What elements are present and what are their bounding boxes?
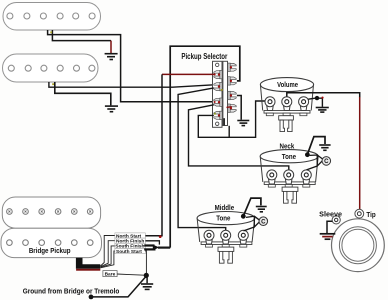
capacitor C-NECK wedge (307, 155, 323, 170)
label box Bare (103, 271, 117, 277)
svg-text:C: C (324, 159, 329, 165)
solder dot N.Start (159, 235, 162, 238)
wire bare to junction (117, 274, 144, 275)
wire N.Start riser x162 to lug1L (red segment) (162, 73, 214, 75)
wire lug3R to ground (237, 96, 241, 120)
svg-text:Bare: Bare (105, 272, 116, 278)
pot VOL mounting bracket (279, 116, 294, 132)
bridge humbucker top coil (2, 197, 100, 228)
svg-text:Ground from Bridge or Tremolo: Ground from Bridge or Tremolo (23, 288, 120, 296)
pot TONE-NECK mounting bracket (282, 187, 298, 203)
potentiometer TONE-NECK body (260, 150, 318, 188)
ground G4 volume (316, 108, 329, 113)
wire lug4L to volume lug1 (198, 101, 265, 137)
jack sleeve tab (332, 216, 340, 224)
pot TONE-MID lugs (204, 230, 248, 244)
output jack body (332, 219, 385, 272)
humbucker cable red underline (76, 269, 100, 271)
svg-text:Sleeve: Sleeve (319, 209, 342, 218)
yellow wire specks on lugs (221, 89, 223, 91)
svg-text:North Finish: North Finish (116, 239, 144, 245)
pickup P2 middle single-coil body (3, 54, 99, 82)
switch SW1 plate (213, 61, 223, 127)
svg-text:North Start: North Start (116, 233, 141, 239)
lead label boxes (115, 233, 145, 254)
wire P1 ground lead black part (52, 30, 111, 41)
solder dot middle tone casing (241, 214, 246, 219)
svg-text:Middle: Middle (215, 205, 235, 212)
wire jack tip drop (red) (359, 97, 361, 209)
wire neck tone casing to ground (308, 137, 325, 154)
capacitor C-MID wedge (244, 216, 260, 231)
svg-text:Tone: Tone (282, 154, 297, 161)
ground G7 jack (mixed colors) (320, 233, 336, 235)
wire switch common riser (228, 126, 230, 138)
svg-text:C: C (261, 220, 266, 226)
svg-text:Tip: Tip (366, 212, 375, 219)
pot TONE-MID mounting bracket (218, 247, 234, 263)
wire lug4R red stub (227, 106, 232, 109)
wire junction to tremolo ground run (91, 277, 146, 297)
capacitor C-MID body (259, 217, 268, 226)
solder dot neck tone casing (305, 152, 310, 157)
ground G2 (105, 106, 118, 112)
capacitor C-NECK body (322, 157, 331, 166)
ground G5 neck tone (319, 145, 330, 150)
wire South Start down to junction (145, 251, 146, 273)
svg-text:Volume: Volume (277, 82, 298, 90)
ground G8 bridge (146, 278, 148, 284)
ground G1 (105, 54, 118, 60)
switch mounting hole top (216, 63, 219, 66)
bridge humbucker bottom coil (1, 228, 102, 257)
svg-text:Pickup Selector: Pickup Selector (181, 51, 227, 61)
ground G3 selector (237, 121, 249, 126)
wire North+South Finish joint (146, 241, 160, 245)
switch blade (223, 118, 225, 125)
svg-text:South Start: South Start (116, 249, 142, 255)
pot TONE-NECK lugs (267, 170, 312, 184)
wire P1 ground lead maroon drop (110, 41, 112, 53)
wire lug3L to neck tone wiper (189, 105, 289, 170)
svg-text:Tone: Tone (216, 215, 231, 222)
pot VOL lugs (265, 97, 309, 111)
wire lug2L to middle tone wiper (178, 88, 226, 231)
wire P2 ground lead (55, 82, 111, 105)
potentiometer TONE-MID body (197, 212, 255, 248)
svg-text:South Finish: South Finish (115, 244, 144, 250)
humbucker lead fan wires (101, 236, 116, 268)
junction node bridge ground (144, 273, 149, 278)
svg-text:Neck: Neck (280, 143, 295, 150)
yellow specks at pickup leads (50, 31, 52, 33)
wire N.Start riser vertical (145, 74, 162, 235)
switch SW1 common strip (223, 61, 228, 125)
wire volume wiper to jack tip (black run) (287, 93, 360, 98)
node tremolo dot (89, 295, 94, 300)
svg-text:Bridge Pickup: Bridge Pickup (29, 248, 71, 256)
jack tip tab (355, 209, 364, 218)
wire volume lug3 to casing ground (308, 98, 322, 107)
wire P2 hot: down, right, diagonal to selector lug2L (49, 82, 214, 87)
wire sleeve to ground (327, 221, 332, 233)
solder dot volume (315, 96, 319, 100)
switch mounting hole bottom (216, 122, 219, 125)
switch left lugs (214, 70, 222, 119)
potentiometer VOL body (260, 78, 313, 116)
wire middle tone casing to ground (244, 198, 261, 215)
pickup P1 neck single-coil body (3, 3, 101, 31)
wire selector loop: right lugs 1-2 up over top and down left side (170, 46, 240, 247)
ground G6 middle tone (256, 207, 267, 212)
humbucker cable black L (76, 258, 100, 269)
switch right lugs (228, 63, 236, 112)
wire P1 hot: down, right, down to selector lug3L (48, 30, 214, 102)
